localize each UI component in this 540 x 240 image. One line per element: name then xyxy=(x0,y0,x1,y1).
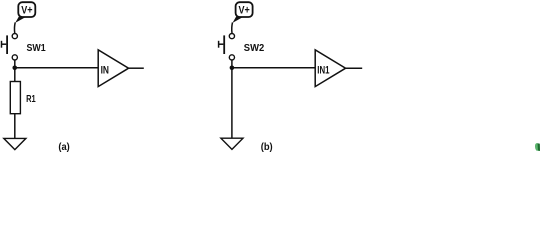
svg-text:V+: V+ xyxy=(21,5,32,17)
wire node A to resistor R1 xyxy=(14,68,16,82)
wire SW1 to node A xyxy=(14,60,16,68)
wire R1 to ground xyxy=(14,114,16,139)
svg-text:IN1: IN1 xyxy=(317,65,329,77)
wire node B to ground xyxy=(231,68,233,138)
switch SW1 xyxy=(2,34,18,61)
node A junction dot xyxy=(12,66,17,71)
switch SW2 xyxy=(219,34,235,61)
svg-text:(a): (a) xyxy=(58,142,69,153)
wire SW2 to node B xyxy=(231,60,233,68)
resistor R1 xyxy=(10,82,20,114)
svg-text:SW1: SW1 xyxy=(27,43,47,54)
wire buffer output (a) xyxy=(129,67,144,69)
wire node A to buffer input xyxy=(15,67,98,69)
svg-text:IN: IN xyxy=(101,65,109,77)
ground (a) xyxy=(4,138,26,149)
power flag V+ (a) xyxy=(15,2,35,23)
svg-text:R1: R1 xyxy=(26,94,36,105)
green watermark fragment bottom-right xyxy=(535,143,540,151)
wire V+ to SW1 top terminal xyxy=(13,22,16,33)
power flag V+ (b) xyxy=(233,2,253,23)
ground (b) xyxy=(221,138,243,149)
svg-text:(b): (b) xyxy=(261,142,273,153)
node B junction dot xyxy=(230,66,235,71)
wire V+ to SW2 top terminal xyxy=(231,22,234,33)
svg-text:SW2: SW2 xyxy=(244,43,265,54)
wire node B to buffer input xyxy=(232,67,315,69)
op-amp buffer IN1 xyxy=(315,50,345,87)
wire buffer output (b) xyxy=(346,67,363,69)
op-amp buffer IN xyxy=(98,50,128,87)
svg-text:V+: V+ xyxy=(239,5,250,17)
